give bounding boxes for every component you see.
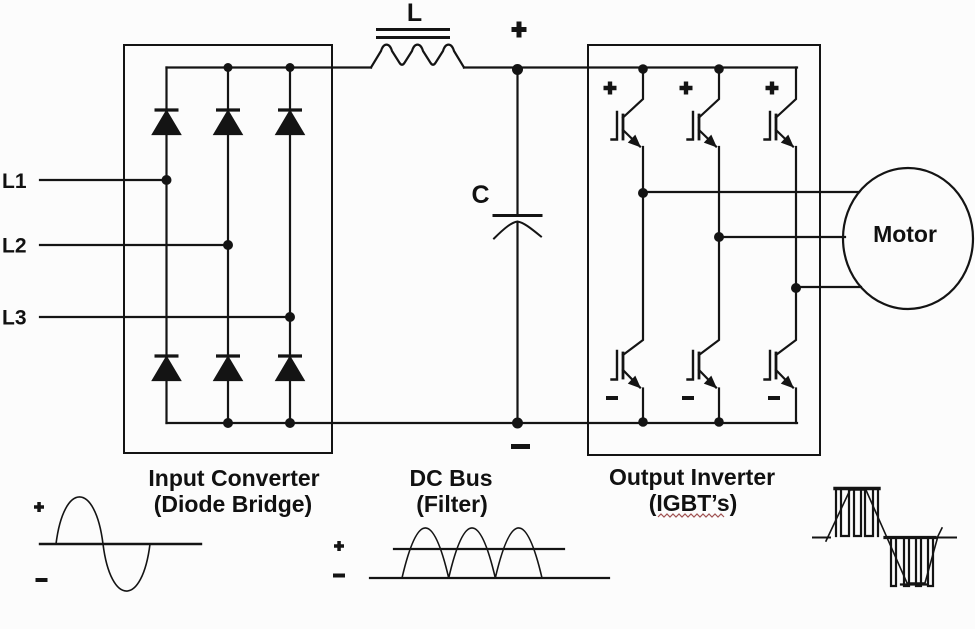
motor M circle	[843, 168, 973, 309]
waveform PWM sine overlay	[826, 490, 942, 583]
node DC- capacitor	[512, 418, 523, 429]
waveform DC bus ripple humps	[402, 528, 542, 578]
capacitor C curved plate	[494, 222, 541, 239]
wire bottom DC bus	[167, 422, 798, 424]
diode D3	[278, 110, 303, 134]
IGBT Q6 bar	[775, 353, 778, 378]
spellcheck squiggle under IGBTs	[658, 514, 724, 517]
svg-text:DC Bus: DC Bus	[409, 465, 492, 491]
svg-text:L2: L2	[2, 235, 27, 258]
svg-text:Motor: Motor	[873, 221, 937, 247]
IGBT Q2 gate	[612, 351, 618, 380]
node bottom bus col2	[223, 418, 233, 428]
diode column 1 wire	[165, 68, 167, 424]
input converter box	[124, 45, 332, 453]
IGBT Q1 arrow	[628, 135, 641, 148]
output inverter box	[588, 45, 820, 455]
waveform PWM negative pulses	[891, 538, 933, 586]
waveform PWM positive top bar	[835, 487, 879, 490]
node inverter top leg A	[638, 64, 648, 74]
svg-text:C: C	[471, 181, 489, 209]
minus inverter leg A	[606, 396, 618, 400]
diode D1	[154, 110, 179, 134]
IGBT Q6 arrow	[781, 376, 794, 389]
waveform PWM axis right	[937, 537, 956, 539]
IGBT Q4 emitter	[699, 370, 716, 388]
waveform DC bus plus line	[394, 548, 564, 550]
IGBT Q2 bar	[622, 353, 625, 378]
node phase U tap	[638, 188, 648, 198]
IGBT leg A wire upper	[623, 68, 643, 118]
IGBT Q3 emitter	[699, 130, 716, 147]
inductor core bar upper	[378, 28, 449, 31]
diode D2	[216, 110, 241, 134]
IGBT Q1 emitter	[623, 130, 640, 147]
plus DC ripple	[334, 541, 344, 551]
node inverter bottom leg B	[714, 417, 724, 427]
IGBT Q5 emitter	[776, 130, 793, 147]
minus input sine	[36, 578, 48, 582]
svg-text:(IGBT’s): (IGBT’s)	[649, 490, 738, 516]
IGBT Q6 emitter	[776, 370, 793, 388]
capacitor C bottom wire	[516, 223, 518, 423]
svg-text:(Filter): (Filter)	[416, 491, 488, 517]
wire phase W to motor	[796, 286, 861, 288]
wire top DC bus left segment	[167, 66, 372, 68]
IGBT Q5 gate	[765, 112, 771, 140]
node top bus col3	[286, 63, 295, 72]
IGBT Q5 bar	[775, 115, 778, 139]
minus DC ripple	[333, 574, 345, 578]
svg-text:L1: L1	[2, 170, 27, 193]
IGBT leg B mid wire	[699, 147, 719, 355]
IGBT Q4 bar	[698, 353, 701, 378]
IGBT leg A mid wire	[623, 147, 643, 355]
plus input sine	[34, 502, 44, 512]
node L2 tap	[223, 240, 233, 250]
svg-text:L3: L3	[2, 307, 27, 330]
wire phase V to motor	[719, 236, 845, 238]
IGBT leg B lower wire	[718, 389, 720, 424]
IGBT Q3 arrow	[704, 135, 717, 148]
wire L2	[40, 244, 228, 246]
waveform input sine curve	[56, 497, 150, 591]
IGBT leg B wire upper	[699, 68, 719, 118]
IGBT leg C mid wire	[776, 147, 796, 355]
svg-text:L: L	[407, 0, 422, 27]
IGBT leg C wire upper	[776, 68, 796, 118]
node phase V tap	[714, 232, 724, 242]
IGBT Q1 bar	[622, 115, 625, 139]
diode D5	[216, 356, 241, 380]
node inverter bottom leg A	[638, 417, 648, 427]
wire phase U to motor	[643, 191, 859, 193]
IGBT Q4 gate	[688, 351, 694, 380]
plus inverter leg C	[766, 82, 779, 95]
waveform input sine axis	[40, 543, 201, 545]
IGBT Q1 gate	[612, 112, 618, 140]
capacitor C top plate	[494, 214, 541, 217]
node bottom bus col3	[285, 418, 295, 428]
IGBT Q3 bar	[698, 115, 701, 139]
diode D6	[278, 356, 303, 380]
svg-text:Input Converter: Input Converter	[148, 465, 319, 491]
diode column 3 wire	[289, 68, 291, 424]
node L3 tap	[285, 312, 295, 322]
node inverter top leg B	[714, 64, 724, 74]
diode D4	[154, 356, 179, 380]
IGBT Q3 gate	[688, 112, 694, 140]
inductor core bar lower	[378, 36, 449, 39]
IGBT leg C lower wire	[795, 389, 797, 424]
waveform PWM positive pulses	[836, 489, 878, 536]
plus inverter leg B	[680, 82, 693, 95]
wire top DC bus right segment	[464, 66, 797, 68]
inductor L coil	[371, 45, 464, 68]
node phase W tap	[791, 283, 801, 293]
IGBT Q2 arrow	[628, 376, 641, 389]
node top bus col2	[224, 63, 233, 72]
plus DC bus top	[512, 22, 527, 38]
IGBT Q5 arrow	[781, 135, 794, 148]
capacitor C top wire	[516, 68, 518, 214]
waveform PWM negative top bar	[885, 536, 935, 539]
IGBT Q2 emitter	[623, 370, 640, 388]
IGBT Q4 arrow	[704, 376, 717, 389]
svg-text:(Diode Bridge): (Diode Bridge)	[154, 491, 312, 517]
node DC+ capacitor	[512, 64, 523, 75]
diode column 2 wire	[227, 68, 229, 424]
wire L3	[40, 316, 290, 318]
waveform PWM axis left	[813, 537, 830, 539]
minus DC bus bottom	[511, 444, 530, 449]
node L1 tap	[162, 175, 172, 185]
IGBT Q6 gate	[765, 351, 771, 380]
minus inverter leg C	[768, 396, 780, 400]
IGBT leg A lower wire	[642, 389, 644, 424]
wire L1	[40, 179, 167, 181]
waveform DC bus minus line	[370, 577, 609, 579]
svg-text:Output Inverter: Output Inverter	[609, 464, 775, 490]
minus inverter leg B	[682, 396, 694, 400]
plus inverter leg A	[604, 82, 617, 95]
